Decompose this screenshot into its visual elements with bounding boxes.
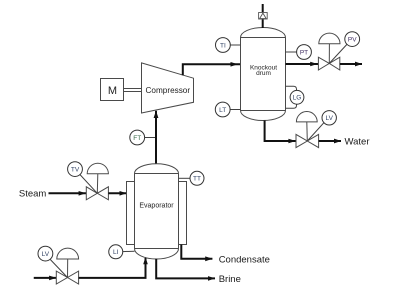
svg-text:Compressor: Compressor	[146, 86, 191, 95]
evaporator vessel E1	[135, 164, 179, 259]
svg-text:PT: PT	[300, 49, 308, 56]
svg-text:LV: LV	[325, 115, 333, 122]
instrument TI	[216, 38, 241, 53]
coupling shaft	[124, 89, 142, 92]
svg-text:Brine: Brine	[219, 274, 241, 285]
level gauge bracket	[286, 86, 297, 108]
wire drum vapor outlet to PV valve	[286, 62, 319, 67]
instrument LG	[290, 90, 304, 104]
evaporator jacket	[127, 182, 187, 245]
control valve TV body	[86, 187, 108, 200]
svg-text:TI: TI	[220, 42, 226, 49]
svg-text:M: M	[108, 85, 117, 97]
wire compressor discharge to knockout drum	[183, 62, 242, 75]
knockout drum V1	[241, 28, 286, 121]
instrument TV	[68, 162, 98, 194]
svg-text:Condensate: Condensate	[219, 254, 270, 265]
vent valve symbol	[259, 13, 268, 20]
instrument LV (feed)	[38, 246, 68, 277]
svg-text:Steam: Steam	[19, 189, 47, 200]
instrument PV	[329, 32, 359, 64]
svg-text:TV: TV	[71, 166, 80, 173]
vent line to atmosphere	[262, 4, 264, 28]
control valve PV actuator	[319, 33, 340, 63]
motor M1	[101, 79, 124, 101]
feed arrow into evaporator	[143, 257, 148, 264]
wire PV valve outlet	[340, 63, 362, 65]
svg-text:Water: Water	[345, 137, 370, 148]
svg-text:drum: drum	[256, 70, 271, 77]
svg-text:Evaporator: Evaporator	[139, 203, 174, 210]
svg-text:LT: LT	[219, 107, 226, 114]
wire feed valve to evaporator riser	[79, 258, 146, 278]
wire feed line bottom left	[34, 276, 57, 281]
svg-text:LI: LI	[113, 249, 119, 256]
svg-text:LV: LV	[42, 251, 50, 258]
svg-text:LG: LG	[293, 95, 302, 102]
wire condensate outlet	[181, 245, 212, 259]
svg-text:PV: PV	[348, 36, 357, 43]
instrument PT	[286, 45, 312, 60]
control valve LV body (water)	[296, 134, 319, 147]
wire steam line to TV valve	[49, 191, 87, 196]
instrument LV (water)	[307, 111, 336, 141]
compressor K1	[142, 63, 194, 113]
control valve LV actuator (water)	[296, 111, 317, 141]
wire compressor suction from evaporator	[155, 111, 157, 164]
svg-text:TT: TT	[193, 176, 201, 183]
control valve LV actuator (feed)	[57, 248, 79, 277]
wire TV valve to jacket	[108, 192, 126, 194]
control valve PV body	[318, 57, 339, 70]
control valve LV body (feed)	[56, 271, 78, 284]
wire brine outlet	[156, 259, 215, 279]
wire LV valve to water outlet	[319, 140, 341, 142]
instrument FT	[130, 130, 155, 145]
instrument TT	[179, 171, 204, 185]
wire drum bottom to LV valve	[265, 121, 296, 144]
control valve TV actuator	[87, 163, 108, 193]
instrument LT	[215, 102, 240, 117]
instrument LI	[109, 245, 135, 259]
svg-text:FT: FT	[133, 135, 141, 142]
